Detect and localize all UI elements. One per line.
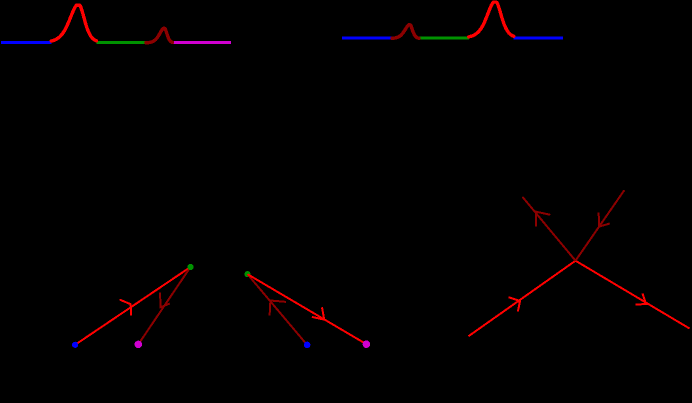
left kink diagram: magenta dot [135, 341, 143, 349]
space-time collision diagram: incoming slow soliton world line (dark red, upper-right) [576, 190, 625, 261]
wave profile after collision: small soliton pulse (dark red) [392, 25, 419, 39]
wave profile after collision: blue right segment [514, 37, 563, 40]
space-time collision diagram: arrowhead incoming fast (pointing up-right) [509, 297, 521, 311]
right kink diagram: arrowhead on red trajectory (pointing down-right) [312, 307, 324, 319]
wave profile before collision: magenta right segment [173, 41, 231, 44]
space-time collision diagram: arrowhead outgoing fast (pointing down-right) [636, 293, 646, 304]
space-time collision diagram: incoming fast soliton world line (red, lower-left) [469, 261, 576, 337]
right kink diagram: blue dot [304, 342, 311, 349]
space-time collision diagram: outgoing fast soliton world line (red, lower-right) [576, 261, 690, 329]
wave profile after collision: green middle segment [419, 37, 469, 40]
left kink diagram: dark red trajectory green-dot to magenta-dot [138, 267, 190, 344]
wave profile after collision: large soliton pulse (red) [469, 2, 514, 37]
left kink diagram: arrowhead on dark red trajectory (pointing down-left) [160, 293, 170, 308]
right kink diagram: dark red trajectory blue-dot to green-dot [248, 274, 308, 345]
right kink diagram: magenta dot [363, 340, 371, 348]
space-time collision diagram: arrowhead incoming slow (pointing down-left) [599, 212, 610, 226]
space-time collision diagram: arrowhead outgoing slow (pointing up-left) [536, 212, 550, 227]
left kink diagram: arrowhead on red trajectory (pointing up-right) [120, 300, 131, 316]
space-time collision diagram: outgoing slow soliton world line (dark red, upper-left) [522, 197, 575, 261]
wave profile before collision: small soliton pulse (dark red) [146, 28, 173, 42]
right kink diagram: red trajectory green-dot to magenta-dot (drawn over green dot) [248, 274, 367, 344]
wave profile before collision: large soliton pulse (red) [51, 5, 96, 41]
wave profile before collision: blue background segment u=0 left [1, 41, 51, 44]
right kink diagram: green dot (under red line) [244, 271, 250, 277]
wave profile before collision: green middle segment [97, 41, 146, 44]
left kink diagram: red trajectory blue-dot to green-dot [75, 267, 190, 345]
wave profile after collision: blue left segment [342, 37, 392, 40]
right kink diagram: arrowhead on dark red trajectory (pointing up-left) [270, 301, 286, 316]
left kink diagram: green dot [187, 264, 193, 270]
left kink diagram: blue dot [72, 342, 78, 348]
